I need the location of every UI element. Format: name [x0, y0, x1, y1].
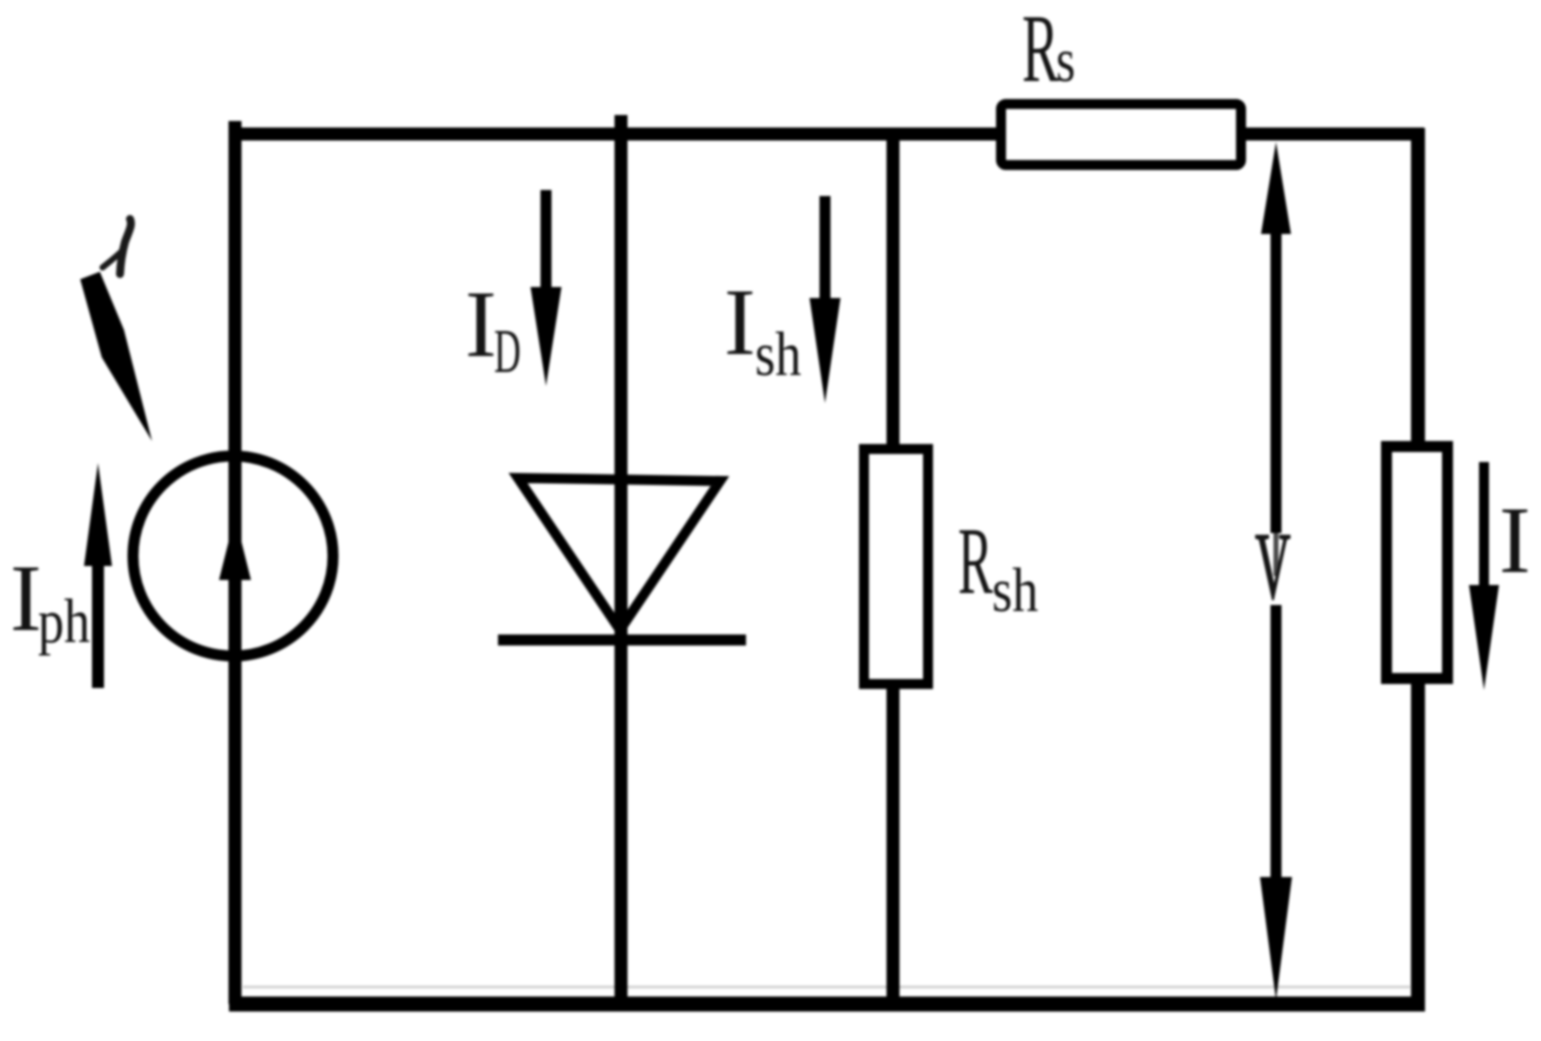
diode D1 triangle: [518, 478, 720, 630]
svg-text:s: s: [1056, 27, 1075, 95]
arrow Ish head: [810, 298, 841, 403]
svg-text:sh: sh: [755, 321, 801, 389]
svg-text:V: V: [1255, 515, 1291, 619]
svg-text:R: R: [958, 509, 993, 614]
current source Iph circle: [133, 456, 333, 656]
svg-text:R: R: [1022, 0, 1059, 103]
current source arrow head: [219, 516, 251, 580]
svg-text:ph: ph: [38, 588, 90, 656]
svg-text:I: I: [724, 269, 756, 375]
label lambda: [103, 219, 131, 274]
svg-text:sh: sh: [992, 557, 1038, 625]
arrow V lower shaft: [1271, 605, 1282, 882]
wire bottom bus: [229, 997, 1425, 1012]
arrow I shaft: [1479, 462, 1489, 590]
diode D1 cathode bar: [498, 635, 746, 646]
svg-text:D: D: [494, 317, 521, 386]
arrow Iph shaft: [92, 560, 104, 688]
arrow I head: [1469, 585, 1499, 690]
wire diode branch: [615, 115, 628, 1004]
svg-text:I: I: [465, 271, 497, 377]
arrow V upper shaft: [1271, 230, 1282, 533]
faint rule above bottom wire: [243, 986, 1410, 989]
wire shunt branch: [887, 134, 900, 1004]
arrow ID head: [531, 287, 562, 386]
photon bolt arrow: [80, 272, 152, 441]
arrow Ish shaft: [820, 196, 831, 302]
svg-text:I: I: [10, 545, 42, 651]
wire right branch: [1411, 128, 1425, 1004]
load resistor body: [1387, 447, 1448, 679]
arrow Iph head: [84, 463, 112, 566]
arrow V top head: [1261, 142, 1291, 234]
wire left branch: [229, 121, 242, 1004]
resistor Rs body: [1001, 104, 1241, 165]
resistor Rsh body: [864, 449, 928, 684]
wire top bus: [229, 128, 1424, 141]
svg-text:I: I: [1499, 487, 1531, 593]
arrow ID shaft: [541, 190, 552, 292]
arrow V bottom head: [1260, 877, 1292, 1000]
